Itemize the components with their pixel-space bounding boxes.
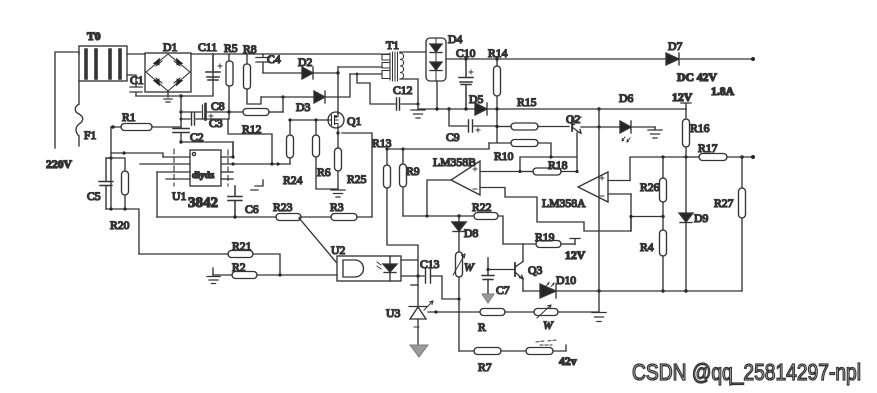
capacitor C6 (228, 186, 242, 217)
LM358B upper input wire (480, 171, 520, 173)
diagonal wire to U2 (299, 218, 336, 262)
svg-text:C12: C12 (393, 84, 413, 97)
LM358B output wire to R22 row (427, 180, 451, 216)
resistor R1 (111, 124, 181, 131)
svg-text:C8: C8 (211, 100, 225, 113)
resistor R14 (494, 59, 501, 143)
resistor R21 (139, 251, 280, 276)
capacitor C5 (99, 158, 113, 209)
12V terminal (570, 239, 580, 245)
diode D8 (452, 216, 466, 252)
wire C3 to U1 area (228, 119, 272, 164)
U1 left pin row 3 (157, 171, 190, 173)
capacitor C13 (426, 269, 461, 301)
svg-text:R23: R23 (273, 201, 293, 214)
svg-text:12V: 12V (672, 91, 693, 104)
diode D5 (475, 103, 487, 115)
svg-text:3842: 3842 (188, 195, 218, 211)
svg-text:R4: R4 (640, 241, 654, 254)
Q1 drain source column (336, 112, 372, 217)
op-amp LM358B (451, 161, 480, 195)
svg-text:D7: D7 (668, 40, 682, 53)
svg-text:D6: D6 (619, 92, 633, 105)
svg-text:Q2: Q2 (566, 113, 580, 126)
svg-text:U3: U3 (386, 307, 400, 320)
transistor Q2 (572, 117, 581, 171)
transformer T0 (79, 46, 127, 81)
resistor R20 (109, 156, 128, 209)
svg-text:T1: T1 (386, 39, 399, 52)
resistor R13 (384, 147, 420, 306)
svg-text:12V: 12V (565, 249, 586, 262)
U3 row wire (428, 310, 480, 313)
svg-text:C13: C13 (420, 258, 440, 271)
LM358A top input wire (630, 155, 686, 180)
svg-text:R26: R26 (640, 181, 660, 194)
svg-text:D1: D1 (163, 41, 177, 54)
sense wire y149 (387, 143, 489, 149)
svg-text:C7: C7 (496, 284, 510, 297)
svg-text:R15: R15 (517, 96, 537, 109)
resistor R3 (331, 214, 357, 221)
svg-text:LM358B: LM358B (433, 156, 476, 169)
dashed line left of U1 (173, 149, 175, 186)
svg-text:R5: R5 (224, 42, 238, 55)
U1 right pin row 2 long wire (221, 162, 290, 165)
LM358A minus input drop (629, 194, 632, 231)
resistor R7 (474, 348, 526, 355)
svg-text:R17: R17 (698, 142, 718, 155)
svg-text:D4: D4 (448, 33, 462, 46)
svg-text:W: W (543, 319, 554, 332)
capacitor C9 (449, 109, 497, 132)
resistor R16 (683, 109, 690, 157)
svg-text:R13: R13 (372, 137, 392, 150)
svg-text:LM358A: LM358A (542, 197, 586, 210)
wire C4 to D2 (263, 72, 302, 74)
svg-text:CSDN @qq_25814297-npl: CSDN @qq_25814297-npl (632, 359, 861, 385)
node column C2 (179, 96, 182, 144)
bottom wire C5 R20 (106, 207, 139, 254)
resistor R27 (739, 157, 746, 291)
svg-text:D3: D3 (296, 101, 310, 114)
svg-text:R27: R27 (714, 197, 734, 210)
D10 rail (523, 289, 742, 292)
svg-text:R3: R3 (330, 201, 344, 214)
svg-text:R: R (478, 321, 486, 334)
U1 left pin row 1 (163, 156, 190, 158)
resistor R17 (684, 154, 755, 161)
ground left of R2 (207, 268, 220, 284)
svg-text:C4: C4 (267, 53, 281, 66)
svg-text:U1: U1 (172, 190, 186, 203)
resistor R12 (227, 109, 283, 116)
D9 column (685, 157, 687, 291)
resistor R2 (213, 272, 337, 279)
svg-text:D8: D8 (464, 227, 478, 240)
wire C2 bottom to U1 pin1 (181, 142, 233, 157)
dashed line right of U1 (227, 150, 229, 186)
wire Q2 to D6 (581, 125, 620, 128)
svg-text:W: W (464, 261, 475, 274)
capacitor C7 (482, 258, 494, 293)
ground under C7 (482, 294, 494, 303)
resistor R23 (276, 214, 301, 221)
resistor R22 (474, 213, 503, 245)
wires to T1 primary bottom (338, 67, 382, 76)
svg-text:Q3: Q3 (528, 264, 542, 277)
svg-text:Q1: Q1 (347, 115, 361, 128)
svg-text:diydz: diydz (192, 171, 215, 181)
ground stem mid (592, 291, 606, 322)
svg-text:R25: R25 (347, 173, 367, 186)
diode D2 (302, 67, 338, 79)
resistor R24 (287, 118, 294, 164)
D8 R22 row (403, 214, 474, 217)
potentiometer W1 (453, 252, 465, 351)
resistor R4 (660, 230, 667, 291)
svg-text:C9: C9 (446, 131, 460, 144)
svg-text:R22: R22 (472, 201, 492, 214)
IC U1 3842 (190, 150, 221, 186)
svg-text:R9: R9 (406, 165, 420, 178)
transistor Q3 (515, 244, 523, 291)
svg-text:C6: C6 (245, 203, 259, 216)
svg-text:C11: C11 (198, 41, 217, 54)
12V rail label (681, 103, 691, 109)
svg-text:C10: C10 (456, 47, 476, 60)
small stub under R24 (251, 180, 263, 190)
svg-text:R16: R16 (690, 122, 710, 135)
long vertical bus x599 (597, 109, 600, 293)
bottom rail (157, 215, 372, 218)
secondary return rail with D5 (418, 81, 686, 111)
diode D6 (620, 121, 655, 142)
vertical from pin row3 to bottom rail (156, 172, 158, 217)
svg-text:R6: R6 (317, 166, 331, 179)
svg-text:R10: R10 (494, 150, 514, 163)
svg-text:DC 42V: DC 42V (677, 71, 717, 84)
transformer T1 (381, 52, 426, 104)
svg-text:T0: T0 (87, 30, 101, 43)
bridge bottom stub to node (164, 92, 172, 102)
resistor R (480, 309, 534, 316)
potentiometer W2 (534, 305, 599, 318)
resistor R15 (495, 123, 569, 130)
wire R12 to D3 (282, 97, 284, 112)
R18 bypass loop (518, 155, 576, 173)
resistor output sense (526, 340, 566, 355)
capacitor C1 (127, 75, 142, 96)
resistor R26 (660, 157, 667, 230)
svg-text:D9: D9 (694, 212, 708, 225)
resistor R8 (244, 54, 262, 104)
U1 left pin row 2 (140, 163, 190, 165)
svg-text:R14: R14 (488, 47, 508, 60)
output wire from D4 (446, 57, 666, 60)
svg-text:D10: D10 (556, 274, 576, 287)
svg-text:R20: R20 (110, 219, 130, 232)
svg-text:42v: 42v (559, 355, 577, 368)
resistor R18 (520, 168, 579, 175)
svg-text:D2: D2 (298, 56, 312, 69)
svg-text:F1: F1 (84, 129, 97, 142)
svg-text:R18: R18 (548, 159, 568, 172)
R7 row wire (459, 350, 474, 352)
svg-text:1.8A: 1.8A (711, 85, 735, 98)
resistor R9 (400, 147, 407, 216)
capacitor C4 (256, 54, 270, 73)
svg-text:R24: R24 (283, 174, 303, 187)
Q3 base wire (486, 268, 515, 271)
lower rail C1 to C11 column (136, 70, 213, 98)
ground after D6 (648, 127, 662, 138)
bridge rectifier D1 (145, 53, 191, 92)
svg-text:C3: C3 (209, 117, 223, 130)
rectifier block D4 (426, 38, 446, 81)
snubber node column (336, 67, 339, 114)
Q1 gate wire (290, 119, 330, 121)
U2 right bottom wire to C13 (401, 275, 424, 277)
diode D3 (261, 74, 350, 103)
ground under U3 (410, 345, 428, 357)
capacitor C11 electrolytic (206, 54, 222, 80)
svg-text:R7: R7 (478, 361, 492, 374)
svg-text:R2: R2 (232, 261, 246, 274)
shunt regulator U3 (409, 301, 433, 345)
U1 right pin row 3 (221, 171, 233, 173)
wire into U1 top from left (111, 151, 163, 157)
U1 left pin row 4 (166, 178, 190, 180)
resistor R10 (489, 140, 551, 158)
LM358B to LM358A zigzag (480, 188, 665, 232)
wire T0 to bridge top (127, 53, 145, 55)
ground under C12 (411, 104, 425, 118)
op-amp LM358A (578, 172, 631, 202)
diode D7 (666, 53, 755, 65)
fuse F1 (75, 81, 83, 146)
svg-text:U2: U2 (331, 244, 345, 257)
top rail from bridge to T1 (191, 53, 381, 55)
capacitor C3 row (181, 113, 228, 125)
diode D10 (540, 283, 556, 299)
svg-text:R19: R19 (535, 231, 555, 244)
diode D9 (679, 213, 693, 223)
svg-text:D5: D5 (469, 93, 483, 106)
MOSFET Q1 (328, 112, 344, 128)
capacitor C2 (173, 129, 189, 133)
svg-text:R21: R21 (232, 240, 252, 253)
vertical feed x=111 (110, 127, 112, 209)
U1 right pin row 1 (221, 142, 235, 159)
capacitor C8 row (181, 104, 243, 120)
capacitor C10 electrolytic (459, 59, 473, 109)
resistor R25 (335, 148, 342, 189)
capacitor C12 (357, 74, 420, 110)
U1 right pin row 4 (221, 178, 233, 180)
ground under R25 (331, 189, 345, 197)
resistor R6 (313, 118, 339, 189)
resistor R5 (226, 54, 233, 119)
AC input wire left (55, 52, 79, 148)
svg-text:220V: 220V (46, 158, 73, 171)
svg-text:R8: R8 (243, 43, 257, 56)
U3 cathode column tick (411, 284, 418, 286)
optocoupler U2 (337, 256, 401, 281)
svg-text:C1: C1 (130, 74, 144, 87)
svg-text:C5: C5 (87, 190, 101, 203)
svg-text:R1: R1 (122, 111, 136, 124)
resistor R19 (503, 241, 574, 248)
